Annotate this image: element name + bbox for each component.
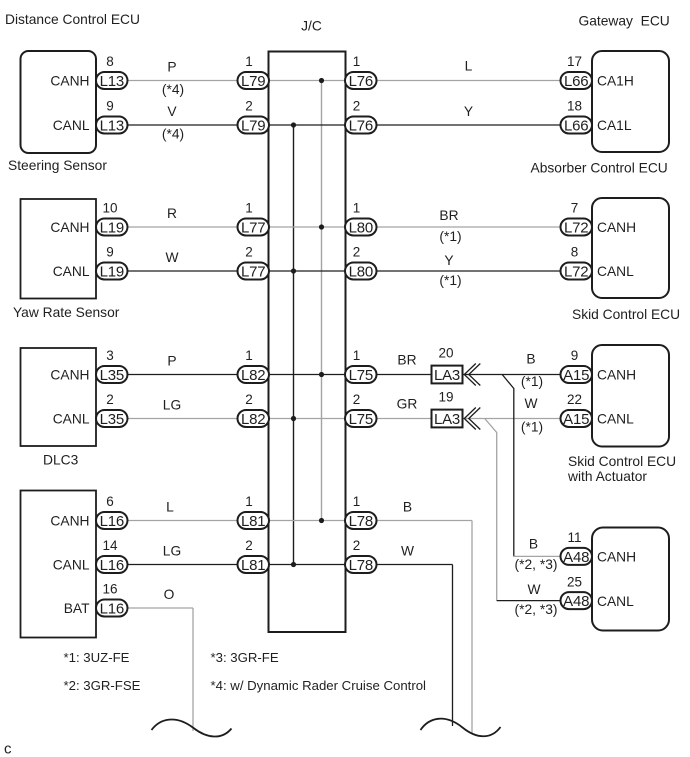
connector L16 pin 16 (BAT) [96,600,128,618]
wire colour W row 4 [165,250,178,265]
svg-text:L77: L77 [241,263,265,280]
svg-text:2: 2 [245,245,253,260]
ECU box: Gateway ECU [592,51,669,152]
page marker c [4,741,12,757]
svg-text:(*2, *3): (*2, *3) [515,602,558,617]
wire colour W row 6 to A15 [524,396,537,411]
svg-text:10: 10 [102,201,117,216]
svg-text:LG: LG [163,398,181,413]
pin number 1 at x=249 row y=520.5 [245,494,253,509]
pin number 17 at x=574.5 row y=80.5 [567,54,582,69]
svg-text:L76: L76 [349,73,373,90]
svg-text:W: W [524,396,537,411]
wire B (*2,*3) branch from LA3 row 5 to A48 CANH [502,375,576,557]
wire R / BR (row 3, CANH Yaw Rate Sensor to Skid Control ECU) [112,226,576,228]
pin number 2 at x=356.5 row y=271.0 [353,245,361,260]
pin number 18 at x=574.5 row y=125.0 [567,99,582,114]
svg-text:CANH: CANH [597,368,636,383]
svg-text:A15: A15 [563,411,589,428]
svg-text:CANL: CANL [53,118,90,133]
connector L72 pin 7 (Skid Control ECU CANH) [561,219,593,237]
connector L78 pin 1 (J/C right) [345,512,377,530]
wire CANL bus (left vertical in J/C) [293,125,295,565]
CANL label Steering Sensor [53,118,90,133]
junction connector J/C box [269,52,346,633]
svg-text:CANL: CANL [597,594,634,609]
wire colour O BAT row [164,587,175,602]
svg-text:1: 1 [353,348,361,363]
pin number 20 of LA3 [438,345,453,360]
svg-text:L66: L66 [564,73,588,90]
pin number 8 at x=110 row y=80.5 [106,54,114,69]
label Skid Control ECU with Actuator [567,454,676,484]
ECU box: Steering Sensor (Distance Control ECU) [21,51,97,153]
pin number 2 at x=249 row y=564.5 [245,538,253,553]
svg-text:W: W [527,582,540,597]
note *2: 3GR-FSE [64,678,141,693]
wire colour L row 1 right [465,59,473,74]
svg-text:2: 2 [245,538,253,553]
note (*1) row 6 [521,420,543,435]
svg-text:B: B [529,536,538,551]
svg-text:(*4): (*4) [162,82,184,97]
CA1H label Gateway [597,74,634,89]
note (*1) row 4 [439,273,461,288]
connector L78 pin 2 (J/C right) [345,556,377,574]
wire O (BAT row from L16 down to bottom) [112,608,193,731]
wire colour B row 5 to A15 [526,352,535,367]
pin number 2 at x=356.5 row y=125.0 [353,99,361,114]
connector L72 pin 8 (Skid Control ECU CANL) [561,263,593,281]
svg-text:BR: BR [439,208,458,223]
CA1L label Gateway [597,118,632,133]
connector L79 pin 1 (J/C left) [238,72,270,90]
svg-text:CANL: CANL [597,412,634,427]
svg-text:L19: L19 [100,263,124,280]
svg-text:L13: L13 [100,73,124,90]
label Skid Control ECU [572,307,680,322]
junction dot row 8 CANL bus [291,562,296,567]
pin number 10 at x=110 row y=227.0 [102,201,117,216]
svg-text:L: L [465,59,473,74]
note (*2,*3) A48 CANL [515,602,558,617]
svg-text:L78: L78 [349,513,373,530]
svg-text:LA3: LA3 [434,367,460,384]
svg-text:L35: L35 [100,411,124,428]
pin number 1 at x=356.5 row y=520.5 [353,494,361,509]
connector L16 pin 6 (CANH) [96,512,128,530]
pin number 1 at x=249 row y=80.5 [245,54,253,69]
pin number 16 at x=110 row y=608.0 [102,582,117,597]
pin number 2 at x=356.5 row y=564.5 [353,538,361,553]
svg-text:Steering Sensor: Steering Sensor [8,158,107,173]
pin number 11 at x=574.5 row y=556.4 [567,530,581,545]
svg-text:Y: Y [464,104,473,119]
label Steering Sensor [8,158,107,173]
CANL label L16 [53,558,90,573]
CANH label Skid Control [597,220,636,235]
label Absorber Control ECU [531,161,668,176]
pin number 1 at x=356.5 row y=374.5 [353,348,361,363]
svg-text:Yaw Rate Sensor: Yaw Rate Sensor [13,305,120,320]
ECU box: Skid Control ECU [592,198,669,298]
svg-text:CANL: CANL [53,412,90,427]
CANH label A15 [597,368,636,383]
svg-text:B: B [403,500,412,515]
wire colour B row 7 right [403,500,412,515]
connector LA3 pin 19 (row 6) [432,410,463,428]
pin number 3 at x=110 row y=374.5 [106,348,114,363]
svg-text:L81: L81 [241,557,265,574]
wire colour W row 8 right [401,544,414,559]
svg-text:CANL: CANL [53,558,90,573]
pin number 6 at x=110 row y=520.5 [106,494,114,509]
svg-text:L80: L80 [349,219,373,236]
wire colour LG row 8 [163,544,181,559]
wire colour LG row 6 [163,398,181,413]
svg-text:c: c [4,741,12,757]
CANH label Steering Sensor [50,74,89,89]
svg-text:P: P [167,354,176,369]
wire LG / GR / W (row 6, CANL DLC3 to Skid Control ECU with Actuator) [112,418,576,420]
connector L35 pin 3 (DLC3 CANH) [96,366,128,384]
svg-text:25: 25 [567,574,582,589]
svg-text:A48: A48 [563,549,589,566]
CANH label A48 [597,550,636,565]
junction dot row 3 CANH bus [319,224,324,229]
pin number 2 at x=249 row y=418.5 [245,392,253,407]
wire colour BR row 5 mid [397,352,416,367]
pin number 2 at x=249 row y=125.0 [245,99,253,114]
junction dot row 5 CANH bus [319,372,324,377]
wire colour B to A48 CANH [529,536,538,551]
svg-text:11: 11 [567,530,581,545]
connector L82 pin 2 (J/C left) [238,410,270,428]
svg-text:8: 8 [571,245,579,260]
svg-text:L72: L72 [564,263,588,280]
svg-text:CANL: CANL [597,264,634,279]
svg-text:O: O [164,587,175,602]
svg-text:1: 1 [245,348,253,363]
ECU box: Skid Control ECU with Actuator [592,345,669,447]
wire colour W to A48 CANL [527,582,540,597]
connector L81 pin 2 (J/C left) [238,556,270,574]
svg-text:1: 1 [353,54,361,69]
junction dot row 1 CANH bus [319,78,324,83]
svg-text:L79: L79 [241,73,265,90]
connector L13 pin 8 (Steering Sensor CANH) [96,72,128,90]
svg-text:1: 1 [245,54,253,69]
note (*4) row 2 [162,127,184,142]
CANH label DLC3 [50,368,89,383]
svg-text:(*4): (*4) [162,127,184,142]
label J/C [301,19,322,34]
pin number 22 at x=574.5 row y=418.5 [567,392,582,407]
svg-text:2: 2 [245,392,253,407]
svg-text:L19: L19 [100,219,124,236]
connector L66 pin 17 (Gateway ECU CA1H) [561,72,593,90]
CANL label Yaw Rate Sensor [53,264,90,279]
svg-text:20: 20 [438,345,453,360]
note (*2,*3) A48 CANH [515,557,558,572]
connector L76 pin 1 (J/C right) [345,72,377,90]
svg-text:R: R [167,206,177,221]
svg-text:9: 9 [106,99,114,114]
note *4: w/ Dynamic Rader Cruise Control [211,678,427,693]
pin number 1 at x=356.5 row y=227.0 [353,201,361,216]
pin number 19 of LA3 [438,389,453,404]
svg-text:*1: 3UZ-FE: *1: 3UZ-FE [64,650,130,665]
svg-text:L16: L16 [100,557,124,574]
wire CANH bus (right vertical in J/C) [321,81,323,521]
svg-text:LG: LG [163,544,181,559]
connector L75 pin 2 (J/C right) [345,410,377,428]
svg-text:CANL: CANL [53,264,90,279]
svg-text:BR: BR [397,352,416,367]
CANL label Skid Control [597,264,634,279]
svg-text:9: 9 [571,348,579,363]
wavy break line bottom left [152,719,232,736]
pin number 7 at x=574.5 row y=227.0 [571,201,579,216]
svg-text:L81: L81 [241,513,265,530]
note *1: 3UZ-FE [64,650,130,665]
svg-text:(*1): (*1) [439,229,461,244]
CANL label A48 [597,594,634,609]
pin number 9 at x=110 row y=125.0 [106,99,114,114]
svg-text:W: W [165,250,178,265]
svg-text:Absorber Control ECU: Absorber Control ECU [531,161,668,176]
svg-text:L79: L79 [241,117,265,134]
pin number 8 at x=574.5 row y=271.0 [571,245,579,260]
svg-text:*2: 3GR-FSE: *2: 3GR-FSE [64,678,141,693]
svg-text:P: P [167,60,176,75]
pin number 1 at x=249 row y=374.5 [245,348,253,363]
svg-text:BAT: BAT [64,601,90,616]
wire L / B (row 7, CANH L16 to L78 then down) [112,521,472,734]
pin number 2 at x=249 row y=271.0 [245,245,253,260]
svg-text:CANH: CANH [50,368,89,383]
pin number 2 at x=110 row y=418.5 [106,392,114,407]
CANL label A15 [597,412,634,427]
svg-text:L75: L75 [349,411,373,428]
connector A48 pin 11 (CANH) [561,548,593,566]
connector L76 pin 2 (J/C right) [345,117,377,135]
connector L80 pin 2 (J/C right) [345,263,377,281]
svg-text:9: 9 [106,245,114,260]
CANL label DLC3 [53,412,90,427]
wire P / BR / B (row 5, CANH DLC3 to Skid Control ECU with Actuator) [112,374,576,376]
wire LG / W (row 8, CANL L16 to L78 then down) [112,565,453,727]
note *3: 3GR-FE [211,650,279,665]
wire colour BR row 3 right [439,208,458,223]
svg-text:2: 2 [106,392,114,407]
svg-text:L82: L82 [241,367,265,384]
connector L35 pin 2 (DLC3 CANL) [96,410,128,428]
connector LA3 pin 20 (row 5) [432,366,463,384]
CANH label L16 [50,514,89,529]
svg-text:L72: L72 [564,219,588,236]
svg-text:W: W [401,544,414,559]
svg-text:(*2, *3): (*2, *3) [515,557,558,572]
wavy break line bottom right [421,719,501,737]
svg-text:L: L [166,500,174,515]
label Distance Control ECU [5,12,140,27]
wire colour GR row 6 mid [397,397,418,412]
svg-text:1: 1 [245,201,253,216]
ECU box: DLC3 [21,348,97,446]
svg-text:16: 16 [102,582,117,597]
svg-text:DLC3: DLC3 [43,453,79,468]
svg-text:1: 1 [245,494,253,509]
wire colour V row 2 [167,104,177,119]
ECU box: Yaw Rate Sensor [21,199,97,299]
svg-text:*4: w/ Dynamic Rader Cruise Co: *4: w/ Dynamic Rader Cruise Control [211,678,427,693]
ECU box: A48 connector ECU [592,528,669,631]
svg-text:L75: L75 [349,367,373,384]
svg-text:Skid Control ECU: Skid Control ECU [568,454,676,469]
svg-text:CANH: CANH [50,74,89,89]
svg-text:L66: L66 [564,117,588,134]
svg-text:17: 17 [567,54,582,69]
svg-text:L16: L16 [100,513,124,530]
svg-text:CA1L: CA1L [597,118,632,133]
connector L80 pin 1 (J/C right) [345,219,377,237]
svg-text:Gateway ECU: Gateway ECU [579,14,670,29]
svg-text:with Actuator: with Actuator [567,469,647,484]
svg-text:19: 19 [438,389,453,404]
label DLC3 [43,453,79,468]
svg-text:22: 22 [567,392,582,407]
wire colour Y row 2 right [464,104,473,119]
connector L77 pin 1 (J/C left) [238,219,270,237]
svg-text:Y: Y [444,253,453,268]
svg-text:L78: L78 [349,557,373,574]
pin number 2 at x=356.5 row y=418.5 [353,392,361,407]
wire colour P row 1 [167,60,176,75]
svg-text:L13: L13 [100,117,124,134]
svg-text:6: 6 [106,494,114,509]
svg-text:14: 14 [102,538,118,553]
junction dot row 7 CANH bus [319,518,324,523]
wire colour L row 7 [166,500,174,515]
svg-text:3: 3 [106,348,114,363]
svg-text:J/C: J/C [301,19,322,34]
note (*1) row 5 [521,374,543,389]
wire V / Y (row 2, CANL Steering Sensor to Gateway ECU) [112,124,576,126]
connector A15 pin 9 (CANH) [561,366,593,384]
junction dot row 6 CANL bus [291,416,296,421]
note (*4) row 1 [162,82,184,97]
wire colour P row 5 [167,354,176,369]
svg-text:*3: 3GR-FE: *3: 3GR-FE [211,650,279,665]
svg-text:2: 2 [245,99,253,114]
connector L75 pin 1 (J/C right) [345,366,377,384]
wire W (*2,*3) branch from LA3 row 6 to A48 CANL [485,419,576,601]
BAT label L16 [64,601,90,616]
svg-text:A48: A48 [563,593,589,610]
wire colour R row 3 [167,206,177,221]
connector L77 pin 2 (J/C left) [238,263,270,281]
wire colour Y row 4 right [444,253,453,268]
svg-text:8: 8 [106,54,114,69]
svg-text:GR: GR [397,397,418,412]
pin number 1 at x=356.5 row y=80.5 [353,54,361,69]
junction dot row 2 CANL bus [291,122,296,127]
connector L13 pin 9 (Steering Sensor CANL) [96,117,128,135]
svg-text:CANH: CANH [597,550,636,565]
pin number 1 at x=249 row y=227.0 [245,201,253,216]
svg-text:CANH: CANH [50,220,89,235]
svg-text:CANH: CANH [597,220,636,235]
note (*1) row 3 [439,229,461,244]
svg-text:1: 1 [353,494,361,509]
shield chevrons row 6 [464,408,480,430]
wire W / Y (row 4, CANL Yaw Rate Sensor to Skid Control ECU) [112,270,576,272]
svg-text:L76: L76 [349,117,373,134]
label Gateway ECU [579,14,670,29]
svg-text:L77: L77 [241,219,265,236]
svg-text:V: V [167,104,177,119]
wire P / L (row 1, CANH Steering Sensor to Gateway ECU) [112,80,576,82]
svg-text:(*1): (*1) [521,374,543,389]
svg-text:2: 2 [353,392,361,407]
junction dot row 4 CANL bus [291,268,296,273]
svg-text:L35: L35 [100,367,124,384]
connector L66 pin 18 (Gateway ECU CA1L) [561,117,593,135]
connector L79 pin 2 (J/C left) [238,117,270,135]
CANH label Yaw Rate Sensor [50,220,89,235]
svg-text:18: 18 [567,99,582,114]
connector L19 pin 10 (Yaw Rate Sensor CANH) [96,219,128,237]
svg-text:CA1H: CA1H [597,74,634,89]
connector L16 pin 14 (CANL) [96,556,128,574]
svg-text:7: 7 [571,201,579,216]
svg-text:2: 2 [353,99,361,114]
shield chevrons row 5 [464,364,480,386]
connector L82 pin 1 (J/C left) [238,366,270,384]
svg-text:CANH: CANH [50,514,89,529]
svg-text:L80: L80 [349,263,373,280]
pin number 9 at x=110 row y=271.0 [106,245,114,260]
svg-text:2: 2 [353,538,361,553]
svg-text:(*1): (*1) [521,420,543,435]
pin number 14 at x=110 row y=564.5 [102,538,118,553]
svg-text:LA3: LA3 [434,411,460,428]
ECU box: bottom-left connector L16 [21,491,97,638]
pin number 9 at x=574.5 row y=374.5 [571,348,579,363]
svg-text:1: 1 [353,201,361,216]
label Yaw Rate Sensor [13,305,120,320]
svg-text:Skid Control ECU: Skid Control ECU [572,307,680,322]
pin number 25 at x=574.5 row y=600.6 [567,574,582,589]
connector A15 pin 22 (CANL) [561,410,593,428]
svg-text:A15: A15 [563,367,589,384]
connector L19 pin 9 (Yaw Rate Sensor CANL) [96,263,128,281]
svg-text:L82: L82 [241,411,265,428]
connector A48 pin 25 (CANL) [561,592,593,610]
svg-text:2: 2 [353,245,361,260]
connector L81 pin 1 (J/C left) [238,512,270,530]
svg-text:Distance Control ECU: Distance Control ECU [5,12,140,27]
svg-text:(*1): (*1) [439,273,461,288]
svg-text:L16: L16 [100,600,124,617]
svg-text:B: B [526,352,535,367]
